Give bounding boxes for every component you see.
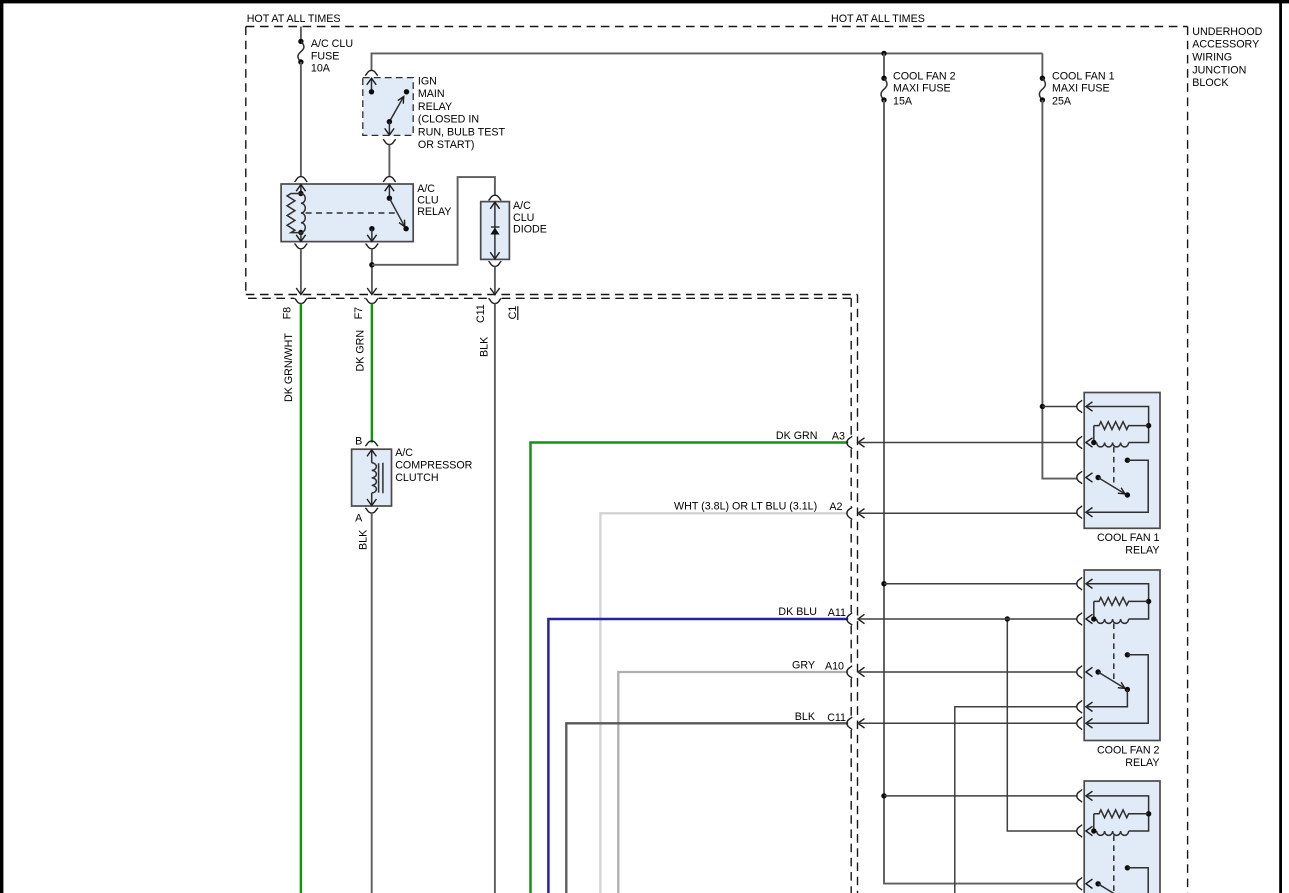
- svg-text:BLK: BLK: [358, 529, 370, 550]
- svg-text:C11: C11: [827, 712, 846, 724]
- connector crossing F7 at junction block boundary: [366, 288, 379, 304]
- switch: A/C CLU relay contacts: [296, 185, 409, 242]
- svg-text:A3: A3: [832, 430, 845, 442]
- svg-text:JUNCTION: JUNCTION: [1192, 64, 1246, 76]
- wire: DK GRN to A3: [531, 443, 849, 893]
- wire: A/C CLU relay coil to F8: [295, 244, 308, 294]
- connector crossing F8 at junction block boundary: [295, 288, 308, 304]
- svg-text:IGN: IGN: [418, 75, 437, 87]
- svg-text:DK GRN: DK GRN: [355, 330, 367, 372]
- svg-text:MAXI FUSE: MAXI FUSE: [1052, 83, 1110, 95]
- connector crossing A3: [847, 436, 865, 449]
- wire: A2 to cool fan 1 relay contact: [858, 512, 1077, 514]
- switch: COOL FAN 2 RELAY contacts: [1086, 623, 1148, 723]
- svg-text:HOT AT ALL TIMES: HOT AT ALL TIMES: [831, 13, 925, 25]
- wire: WHT (3.8L) OR LT BLU (3.1L) to A2: [600, 513, 848, 893]
- wire: DK GRN (F7) to compressor clutch: [371, 304, 374, 443]
- svg-text:WHT (3.8L) OR LT BLU (3.1L): WHT (3.8L) OR LT BLU (3.1L): [674, 501, 817, 513]
- wire: feed spur to cool fan 1 relay pin 1: [1042, 406, 1076, 408]
- wire: DK GRN/WHT (F8): [300, 304, 303, 893]
- wire: A3 to cool fan 1 relay coil: [858, 442, 1077, 444]
- svg-text:15A: 15A: [893, 95, 913, 107]
- relay: COOL FAN 3 RELAY: [1077, 781, 1160, 893]
- wire: A/C CLU relay output to F7 node: [366, 244, 379, 294]
- svg-text:A/C CLU: A/C CLU: [311, 38, 353, 50]
- svg-text:BLK: BLK: [795, 711, 816, 723]
- svg-text:UNDERHOOD: UNDERHOOD: [1192, 26, 1262, 38]
- svg-text:RELAY: RELAY: [1125, 545, 1159, 557]
- solenoid: A/C COMPRESSOR CLUTCH: [352, 441, 392, 513]
- svg-text:B: B: [355, 435, 362, 447]
- svg-text:ACCESSORY: ACCESSORY: [1192, 39, 1259, 51]
- resistor: COOL FAN 2 RELAY coil shunt: [1094, 598, 1149, 606]
- coil: A/C CLU relay winding: [301, 194, 305, 233]
- svg-text:(CLOSED IN: (CLOSED IN: [418, 114, 479, 126]
- resistor: A/C CLU relay coil shunt: [287, 194, 301, 233]
- connector C1 dashed line: [248, 298, 851, 893]
- wire: branch to A/C CLU diode: [372, 177, 495, 265]
- switch: COOL FAN 3 RELAY contacts: [1095, 835, 1148, 893]
- wire: BLK (C11): [494, 304, 496, 893]
- connector crossing C11 at junction block boundary: [489, 288, 502, 304]
- junction: feed to cool fan 1 relay pin 1: [1040, 404, 1045, 409]
- wire: cool fan 1 fuse feed (x=1042): [1042, 100, 1076, 479]
- junction: output node to diode branch: [369, 262, 374, 267]
- svg-text:COOL FAN 2: COOL FAN 2: [1097, 745, 1160, 757]
- relay K: IGN MAIN RELAY (dashed box): [363, 70, 506, 151]
- fuse: COOL FAN 1 MAXI FUSE 25A: [1039, 53, 1114, 107]
- relay: A/C CLU RELAY: [281, 177, 413, 242]
- svg-text:COOL FAN 1: COOL FAN 1: [1097, 532, 1160, 544]
- junction: feed to cool fan 3 relay: [881, 793, 886, 798]
- svg-text:WIRING: WIRING: [1192, 52, 1232, 64]
- label: COOL FAN 1 RELAY: [1097, 532, 1160, 557]
- svg-text:BLOCK: BLOCK: [1192, 77, 1229, 89]
- svg-text:BLK: BLK: [479, 336, 491, 357]
- wire: fuse feed to cool fan 3 relay pin 1: [884, 795, 1077, 797]
- coil: COOL FAN 1 RELAY winding: [1097, 443, 1129, 447]
- connector crossing C11: [847, 717, 865, 730]
- underhood accessory wiring junction block dashed boundary: [246, 27, 1188, 893]
- svg-text:RELAY: RELAY: [418, 101, 452, 113]
- svg-text:RUN, BULB TEST: RUN, BULB TEST: [418, 126, 506, 138]
- fuse: A/C CLU FUSE 10A: [298, 27, 353, 75]
- svg-text:C1: C1: [507, 306, 519, 320]
- svg-text:A/C: A/C: [513, 200, 531, 212]
- svg-text:A: A: [355, 513, 363, 525]
- switch: COOL FAN 1 RELAY contacts: [1086, 447, 1148, 512]
- wire: fuse to A/C CLU relay: [300, 62, 302, 177]
- svg-text:HOT AT ALL TIMES: HOT AT ALL TIMES: [247, 13, 341, 25]
- junction: A11 / fan 3 coil branch: [1005, 616, 1010, 621]
- wire: fan motor feed (x=955): [955, 707, 1077, 893]
- svg-text:MAXI FUSE: MAXI FUSE: [893, 83, 951, 95]
- resistor: COOL FAN 1 RELAY coil shunt: [1094, 422, 1149, 430]
- connector crossing A2: [847, 507, 865, 520]
- wire: fuse feed to cool fan 2 relay pin 1: [884, 583, 1077, 585]
- fuse: COOL FAN 2 MAXI FUSE 15A: [881, 53, 956, 107]
- svg-text:10A: 10A: [311, 63, 331, 75]
- wire: A10 to cool fan 2 relay common: [858, 671, 1077, 673]
- wire: diode to C11: [494, 266, 496, 293]
- svg-text:COOL FAN 1: COOL FAN 1: [1052, 70, 1115, 82]
- connector crossing A10: [847, 666, 865, 679]
- svg-text:F7: F7: [353, 307, 365, 320]
- svg-text:A/C: A/C: [395, 447, 413, 459]
- svg-text:DIODE: DIODE: [513, 224, 547, 236]
- svg-text:A11: A11: [828, 607, 846, 619]
- svg-text:GRY: GRY: [792, 660, 815, 672]
- svg-text:F8: F8: [282, 307, 294, 320]
- wire: A11 to cool fan 2 relay coil: [858, 618, 1077, 620]
- wire: BLK below clutch: [371, 513, 373, 893]
- relay: COOL FAN 2 RELAY: [1077, 570, 1160, 741]
- wire: IGN main relay to A/C CLU relay: [388, 145, 390, 177]
- wire: cool fan 2 fuse feed (x=884): [884, 100, 1077, 884]
- svg-text:CLUTCH: CLUTCH: [395, 472, 438, 484]
- wire: GRY to A10: [618, 672, 848, 893]
- label: COOL FAN 2 RELAY: [1097, 745, 1160, 770]
- svg-text:MAIN: MAIN: [418, 88, 445, 100]
- svg-text:A/C: A/C: [417, 183, 435, 195]
- svg-text:FUSE: FUSE: [311, 51, 340, 63]
- svg-text:A10: A10: [825, 661, 844, 673]
- wire: B+ bus from IGN main relay to maxi fuses: [372, 53, 1043, 70]
- svg-text:RELAY: RELAY: [417, 206, 451, 218]
- wire: DK BLU to A11: [548, 619, 848, 893]
- resistor: COOL FAN 3 RELAY coil shunt: [1094, 810, 1149, 818]
- diode: A/C CLU DIODE: [481, 195, 547, 266]
- svg-text:DK BLU: DK BLU: [778, 606, 817, 618]
- label: UNDERHOOD ACCESSORY WIRING JUNCTION BLOCK: [1192, 26, 1262, 89]
- svg-text:COMPRESSOR: COMPRESSOR: [395, 460, 472, 472]
- coil: COOL FAN 2 RELAY winding: [1097, 619, 1129, 623]
- junction: bus / cool fan 2 fuse: [881, 51, 886, 56]
- label: A/C CLU RELAY: [417, 183, 451, 218]
- svg-text:DK GRN: DK GRN: [776, 430, 818, 442]
- svg-text:OR START): OR START): [418, 139, 475, 151]
- svg-text:CLU: CLU: [417, 194, 438, 206]
- svg-text:DK GRN/WHT: DK GRN/WHT: [283, 333, 295, 402]
- svg-text:25A: 25A: [1052, 95, 1072, 107]
- relay: COOL FAN 1 RELAY: [1077, 393, 1160, 529]
- svg-text:A2: A2: [829, 501, 842, 513]
- svg-text:COOL FAN 2: COOL FAN 2: [893, 70, 956, 82]
- label: A/C COMPRESSOR CLUTCH: [395, 447, 472, 484]
- wire: C11 to cool fan 2 relay contact B: [858, 722, 1077, 724]
- wire: A11 branch to fan 3 relay coil (x=1007): [1007, 619, 1077, 831]
- junction: feed to cool fan 2 relay: [881, 581, 886, 586]
- svg-text:CLU: CLU: [513, 212, 534, 224]
- coil: COOL FAN 3 RELAY winding: [1097, 831, 1129, 835]
- connector crossing A11: [847, 613, 865, 626]
- svg-text:C11: C11: [475, 304, 487, 323]
- svg-text:RELAY: RELAY: [1125, 757, 1159, 769]
- wire: BLK to C11: [566, 723, 848, 893]
- dashed armature link: [306, 212, 398, 214]
